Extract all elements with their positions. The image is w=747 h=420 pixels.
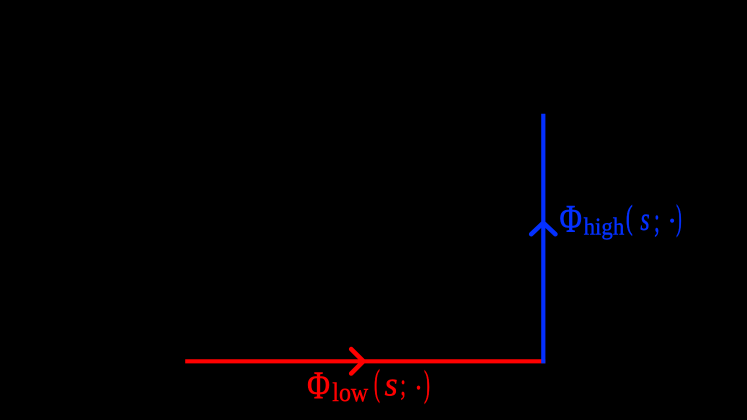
svg-text:low: low <box>332 379 368 407</box>
svg-text:): ) <box>424 364 430 405</box>
svg-text:s: s <box>640 201 649 238</box>
svg-text:Φ: Φ <box>307 364 330 407</box>
svg-text:(: ( <box>626 199 633 237</box>
svg-text:·: · <box>667 204 677 238</box>
svg-text:Φ: Φ <box>560 197 582 240</box>
svg-text:·: · <box>414 372 423 406</box>
svg-text:;: ; <box>400 368 406 402</box>
svg-text:s: s <box>385 366 398 403</box>
svg-text:): ) <box>676 199 682 239</box>
svg-text:high: high <box>584 214 625 241</box>
svg-text:;: ; <box>654 203 660 240</box>
svg-text:(: ( <box>374 363 380 404</box>
